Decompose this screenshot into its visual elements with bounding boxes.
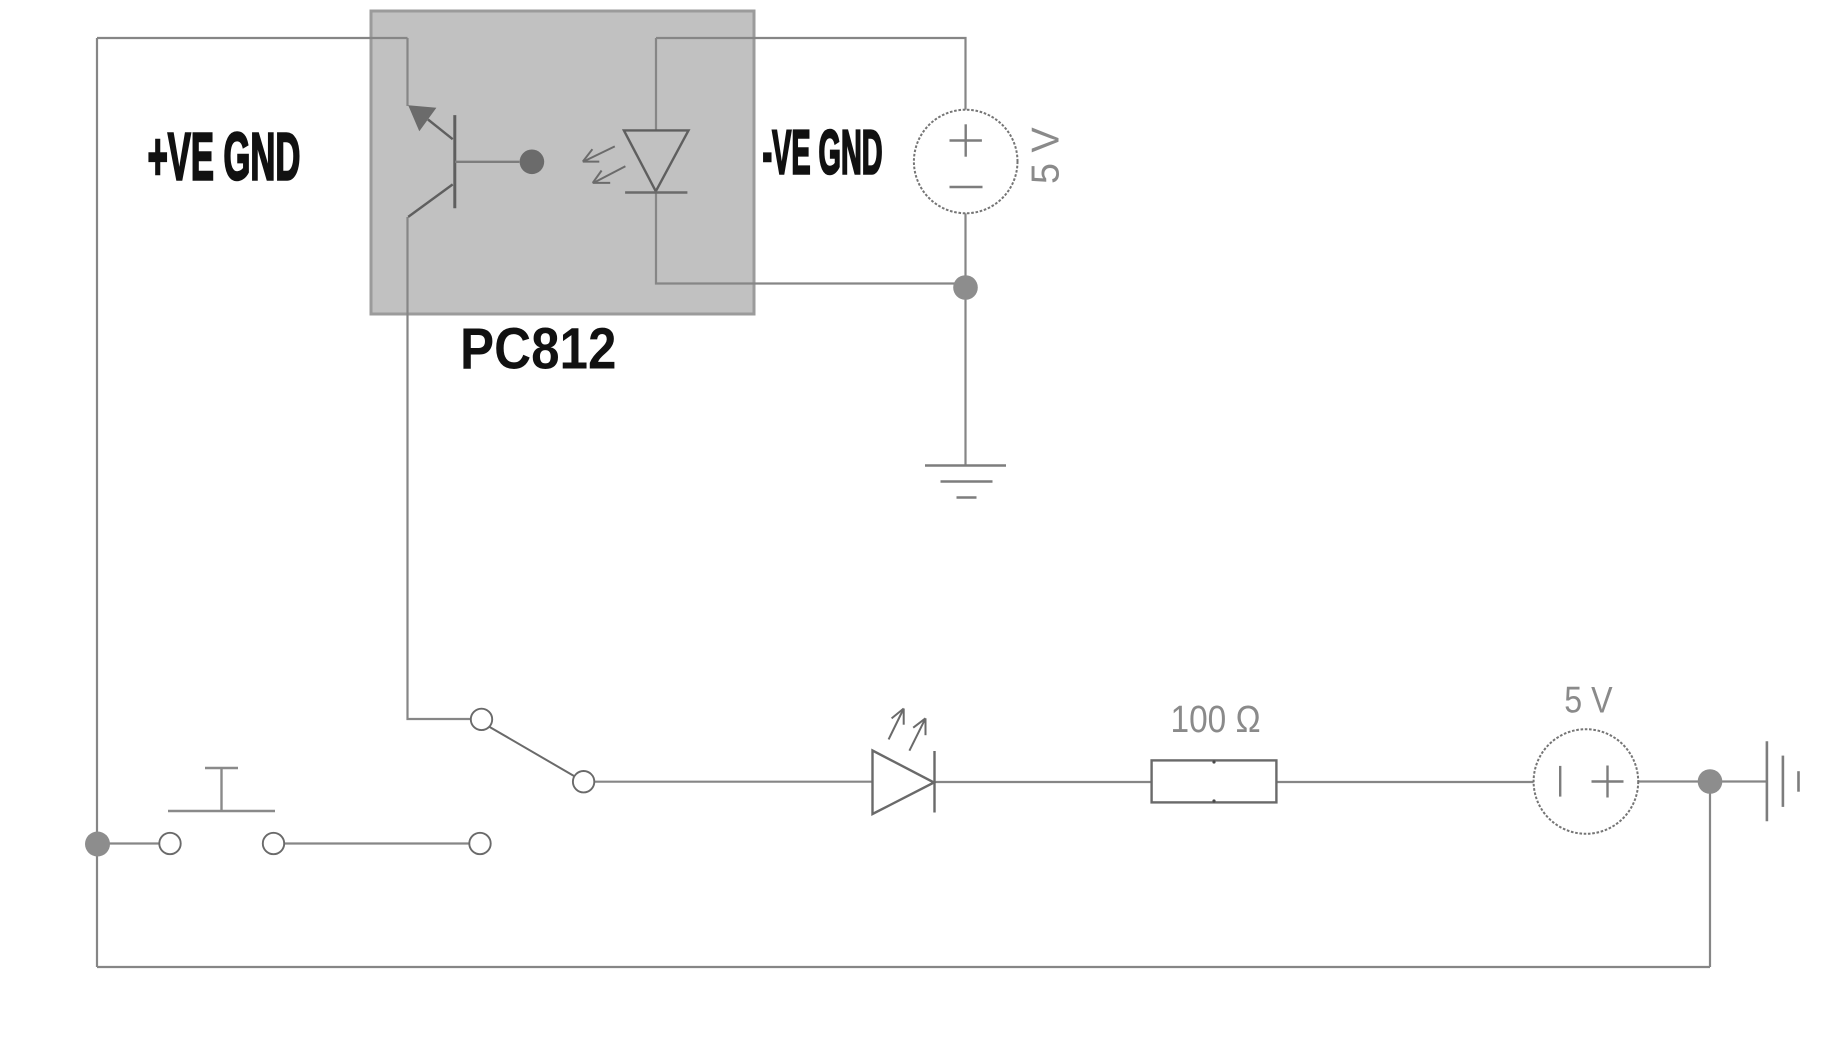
svg-text:100 Ω: 100 Ω [1171,698,1261,740]
svg-text:5 V: 5 V [1025,127,1067,184]
svg-text:-VE GND: -VE GND [763,118,883,187]
svg-text:PC812: PC812 [460,315,616,381]
svg-text:5 V: 5 V [1564,680,1612,721]
svg-text:+VE GND: +VE GND [148,120,301,194]
